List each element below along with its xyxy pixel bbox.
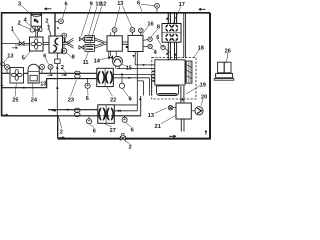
coil column in tank bbox=[186, 61, 192, 83]
wire return pipe with step bbox=[2, 79, 58, 89]
svg-text:5: 5 bbox=[22, 56, 25, 62]
gauge 6 below line near 21 bbox=[122, 116, 127, 123]
svg-text:15: 15 bbox=[126, 66, 132, 72]
label pointer lines bbox=[4, 4, 229, 143]
wire bottom frame line bbox=[58, 138, 211, 140]
wire pipes below pump 21 bbox=[181, 119, 184, 132]
svg-text:18: 18 bbox=[198, 45, 204, 51]
wire lower pipe pair bbox=[48, 109, 141, 116]
splitter Y pipes bbox=[63, 38, 74, 48]
wire arrows on frame lines bbox=[1, 8, 207, 139]
svg-text:11: 11 bbox=[83, 60, 89, 66]
svg-text:2: 2 bbox=[18, 20, 21, 26]
svg-text:2: 2 bbox=[129, 144, 132, 150]
svg-text:9: 9 bbox=[90, 2, 93, 8]
svg-text:2: 2 bbox=[60, 129, 63, 135]
svg-text:25: 25 bbox=[12, 98, 18, 104]
gauge on B top right bbox=[139, 28, 144, 35]
svg-text:8: 8 bbox=[72, 55, 75, 61]
valve 9 upper bbox=[79, 36, 94, 43]
filter 5 box with clover bbox=[30, 37, 44, 51]
svg-text:3: 3 bbox=[18, 1, 21, 7]
wire arrow inlet bbox=[12, 47, 18, 49]
svg-text:1: 1 bbox=[63, 38, 66, 44]
svg-text:2: 2 bbox=[45, 18, 48, 24]
wire pipes right of pump 27 bbox=[114, 96, 141, 116]
gauge on A top bbox=[110, 28, 117, 36]
svg-text:17: 17 bbox=[179, 2, 185, 8]
pipe between A and B bbox=[122, 42, 128, 44]
regulator 4 assembly bbox=[30, 26, 42, 37]
svg-text:6: 6 bbox=[156, 35, 159, 41]
tank 18 body bbox=[152, 60, 185, 85]
svg-text:13: 13 bbox=[40, 81, 46, 87]
wire bottom-left step bbox=[1, 116, 58, 139]
gauge 6b bbox=[40, 64, 45, 73]
valve 6 small box under 7 bbox=[55, 53, 60, 116]
gauge 6c bbox=[48, 64, 53, 73]
tank 24 dome bbox=[28, 64, 39, 83]
gauge 13 left of pump 21 bbox=[168, 105, 176, 110]
wire pipes tank to pump 21 bbox=[181, 86, 184, 103]
svg-text:24: 24 bbox=[31, 98, 38, 104]
svg-text:2: 2 bbox=[37, 19, 39, 23]
wire box B stems down bbox=[135, 52, 137, 111]
svg-text:23: 23 bbox=[68, 97, 74, 103]
pipe 5 to 7 bbox=[43, 42, 49, 44]
pump small on pipe pair bbox=[75, 71, 81, 78]
pump 27 bbox=[98, 105, 115, 124]
valve 1 on inlet pipe bbox=[2, 42, 30, 46]
valve 14 small under box A bbox=[109, 51, 113, 59]
svg-text:1: 1 bbox=[11, 26, 14, 32]
pump 22 bbox=[97, 68, 114, 86]
wire right wall bbox=[209, 13, 211, 139]
tray under tank bbox=[157, 86, 179, 96]
svg-text:4: 4 bbox=[154, 50, 158, 56]
heater 7 box with coil bbox=[49, 36, 63, 53]
svg-text:26: 26 bbox=[225, 48, 231, 54]
svg-text:8: 8 bbox=[157, 25, 160, 31]
svg-text:27: 27 bbox=[110, 128, 116, 134]
gauge 6 right-mid bbox=[161, 45, 170, 52]
svg-text:13: 13 bbox=[7, 53, 13, 59]
svg-text:6: 6 bbox=[93, 128, 96, 134]
gauge 8 right of B bbox=[143, 37, 152, 49]
pipe vertical into 7 from top bbox=[55, 13, 63, 36]
svg-text:6: 6 bbox=[43, 54, 46, 60]
svg-text:12: 12 bbox=[100, 2, 106, 8]
svg-text:6: 6 bbox=[137, 0, 140, 6]
svg-text:6: 6 bbox=[65, 2, 68, 8]
tank 18 dashed enclosure bbox=[152, 58, 196, 99]
svg-text:6: 6 bbox=[86, 96, 89, 102]
gauge 6a bbox=[5, 65, 10, 74]
pump 21 box bbox=[176, 103, 191, 119]
svg-text:19: 19 bbox=[200, 82, 206, 88]
wire main pipe pair lower-left bbox=[2, 73, 97, 78]
svg-text:13: 13 bbox=[117, 1, 123, 7]
svg-text:6: 6 bbox=[131, 127, 134, 133]
gauge 6 on top frame line bbox=[155, 3, 160, 12]
chamber 10 box A bbox=[107, 36, 122, 51]
svg-text:22: 22 bbox=[110, 97, 116, 103]
gauge 6 below pipe bbox=[85, 79, 90, 89]
wire bypass pipe right of 17 bbox=[184, 13, 186, 58]
wire pipes pump22 to tank bbox=[113, 69, 155, 96]
gauge 6 above splitter bbox=[62, 33, 67, 42]
svg-text:13: 13 bbox=[148, 113, 154, 119]
svg-text:21: 21 bbox=[155, 124, 161, 130]
valve 9 lower bbox=[79, 44, 95, 51]
svg-text:6: 6 bbox=[129, 97, 132, 103]
svg-text:16: 16 bbox=[147, 22, 153, 28]
wire outer frame room boundary bbox=[2, 13, 210, 116]
computer 26 bbox=[214, 62, 234, 80]
wire pipes 17 down to tank 18 bbox=[166, 42, 177, 60]
valve 2 on bottom frame line bbox=[120, 136, 125, 140]
svg-text:2: 2 bbox=[61, 65, 64, 71]
valve 2 on lower pair bbox=[74, 108, 80, 117]
gauge left wall bbox=[1, 62, 5, 66]
wire pipes into 17 from top bbox=[166, 13, 177, 24]
chamber 12 box B bbox=[128, 35, 143, 51]
svg-text:14: 14 bbox=[94, 58, 101, 64]
svg-text:20: 20 bbox=[201, 95, 207, 101]
gauge 6 below pipe near 27 bbox=[86, 116, 91, 124]
wire converge pipes bbox=[95, 38, 108, 48]
heat exchanger 17 box bbox=[162, 24, 181, 43]
svg-text:7: 7 bbox=[47, 25, 50, 31]
blower 15 circle bbox=[113, 51, 123, 68]
cylinder 3 N2 tank bbox=[31, 13, 42, 27]
fan 20 bbox=[191, 107, 203, 115]
valve 25 clover in box bbox=[10, 68, 24, 84]
gauge on B top left bbox=[130, 28, 135, 36]
gauge 8 bbox=[61, 45, 67, 54]
